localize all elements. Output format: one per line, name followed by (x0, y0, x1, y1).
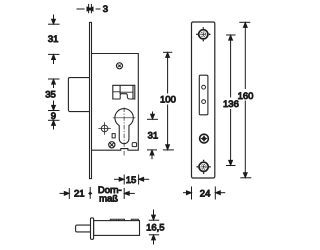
svg-text:maß: maß (99, 193, 118, 204)
Dornmass tick with double arrowhead (88, 187, 92, 199)
svg-text:160: 160 (238, 91, 254, 102)
dim 16,5 (side view height) (149, 210, 159, 245)
dim 136 (plate screw spacing) (226, 35, 236, 166)
handle follower crosshair (98, 122, 110, 134)
svg-text:15: 15 (126, 175, 137, 186)
latch mechanism block (113, 85, 135, 99)
plate bottom screw (197, 160, 211, 174)
lock case outline with bottom bump (92, 54, 138, 151)
dim 31 (cylinder center to case bottom) (147, 112, 158, 160)
side view: latch bolt stub (76, 225, 91, 232)
euro profile cylinder cutout (115, 109, 133, 144)
latch bolt (protruding left) (68, 78, 89, 112)
opening hole 2 (202, 100, 206, 104)
cylinder fixing screw (109, 142, 115, 148)
svg-text:136: 136 (223, 99, 239, 110)
cylinder vertical centerline (123, 108, 125, 157)
side view: top bumps (110, 219, 138, 220)
dim 24 (plate width) (183, 187, 225, 200)
svg-text:3: 3 (103, 4, 108, 15)
svg-text:100: 100 (160, 95, 176, 106)
plate top screw (196, 27, 210, 41)
dim 100 (case top to cylinder center) (163, 52, 174, 150)
side view: faceplate (91, 218, 94, 239)
svg-text:24: 24 (200, 188, 211, 199)
case top screw (117, 63, 123, 69)
plate latch opening (199, 75, 208, 115)
side view: case body (94, 221, 140, 236)
svg-text:31: 31 (48, 34, 59, 45)
opening hole 1 (202, 85, 206, 89)
dim 31 (left top) (48, 15, 60, 65)
svg-text:16,5: 16,5 (146, 222, 165, 233)
cylinder horizontal centerline (113, 117, 136, 119)
faceplate (front view, 3mm thick) (90, 22, 92, 178)
svg-text:21: 21 (74, 189, 85, 200)
dim 15 (cylinder center to case edge) (114, 175, 149, 185)
strike/cover plate (right) (192, 22, 215, 178)
dim 160 (plate height) (239, 22, 251, 178)
plate middle screw (star) (200, 134, 209, 143)
small notch rect at case bottom right (132, 143, 136, 147)
small square cutout (112, 134, 115, 138)
svg-text:35: 35 (45, 90, 56, 101)
dim 35 (left, latch bolt) (48, 79, 60, 111)
Dornmass arrow at cylinder centerline (124, 188, 135, 199)
dim 3 (faceplate thickness) (77, 4, 101, 13)
dim 21 (latch protrusion) (60, 188, 70, 199)
svg-text:31: 31 (148, 130, 159, 141)
